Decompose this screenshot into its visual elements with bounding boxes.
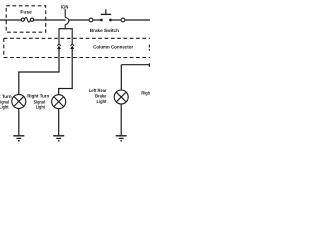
- lamp: right turn signal light: [52, 95, 66, 109]
- svg-text:Left Rear: Left Rear: [89, 88, 107, 93]
- wire: contact to right terminal: [112, 19, 121, 21]
- connector pin arrow right: [70, 46, 74, 49]
- column connector dashed box top edge: [4, 37, 150, 39]
- wire hop: IGN feed crosses main wire: [65, 18, 69, 25]
- wire: drop to left turn lamp: [18, 72, 20, 95]
- wire: left pin down to corner: [58, 47, 60, 73]
- ground: left turn lamp: [13, 135, 24, 137]
- svg-text:Light: Light: [36, 105, 46, 110]
- svg-text:Right Turn: Right Turn: [27, 94, 49, 99]
- wire: left terminal to contact: [93, 19, 100, 21]
- wire: run to left turn lamp: [18, 71, 59, 73]
- connector socket right (fork end): [71, 44, 74, 46]
- svg-text:Fuse: Fuse: [20, 10, 32, 15]
- column connector dashed box left edge: [3, 38, 5, 57]
- wire: fork bar: [58, 28, 72, 30]
- wire: right connector pin upper: [71, 29, 73, 44]
- svg-text:Right Rear: Right Rear: [141, 91, 150, 96]
- ground: right turn lamp: [53, 135, 64, 137]
- fuse block dashed box: [6, 6, 46, 32]
- fuse F1 left terminal: [21, 18, 24, 21]
- wire: run to right turn lamp: [58, 88, 73, 90]
- connector socket left (fork end): [57, 44, 60, 46]
- brake switch contact dot left: [100, 19, 103, 22]
- svg-text:Light: Light: [0, 105, 9, 110]
- lamp: left turn signal light: [12, 94, 26, 108]
- wire: fuse to hop: [34, 19, 66, 21]
- ground: left rear brake lamp: [116, 135, 127, 137]
- svg-text:Light: Light: [97, 99, 107, 104]
- column connector dashed box bottom edge: [4, 57, 150, 59]
- brake switch actuator stem: [105, 9, 107, 14]
- wire: corner stub at right edge: [148, 63, 150, 67]
- wire: brake feed from right edge: [121, 64, 150, 66]
- wire: left turn lamp to ground: [18, 108, 20, 135]
- wire: right turn lamp to ground: [58, 109, 60, 136]
- wire: drop to right turn lamp: [58, 89, 60, 95]
- wire: battery feed from left edge to fuse: [0, 19, 21, 21]
- wire: left rear brake lamp to ground: [120, 104, 122, 135]
- wire: right terminal to right edge: [125, 19, 150, 21]
- brake switch left terminal: [89, 18, 93, 22]
- brake switch contact dot right: [109, 19, 112, 22]
- fuse F1 right terminal: [30, 18, 33, 21]
- wire: left connector pin upper: [58, 29, 60, 44]
- wire: hop to fork bar: [64, 25, 66, 29]
- wire: right pin down to corner: [71, 47, 73, 89]
- svg-text:Left Turn: Left Turn: [0, 94, 12, 99]
- wire: drop to left rear brake lamp: [120, 65, 122, 90]
- brake switch right terminal: [121, 18, 125, 22]
- svg-text:IGN: IGN: [61, 4, 69, 9]
- lamp: left rear brake light: [114, 90, 128, 104]
- wire: hop to brake switch: [68, 19, 89, 21]
- svg-text:Column Connector: Column Connector: [93, 44, 133, 49]
- wire: IGN feed down: [64, 9, 66, 18]
- svg-text:Brake Switch: Brake Switch: [90, 28, 119, 33]
- fuse F1 element wave: [24, 18, 30, 23]
- brake switch actuator bar: [101, 13, 111, 15]
- svg-text:Brake: Brake: [95, 94, 107, 99]
- connector pin arrow left: [57, 46, 61, 49]
- column connector dashed box right edge: [148, 45, 150, 48]
